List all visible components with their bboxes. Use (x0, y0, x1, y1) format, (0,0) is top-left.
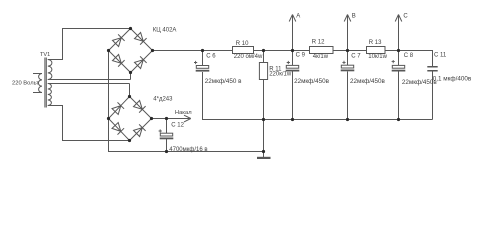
svg-text:220к/1w: 220к/1w (269, 72, 292, 78)
svg-text:4700мкф/16 в: 4700мкф/16 в (169, 147, 207, 153)
svg-text:22мкф/450 в: 22мкф/450 в (205, 78, 242, 85)
svg-text:0,1 мкф/400в: 0,1 мкф/400в (433, 76, 472, 83)
svg-text:TV1: TV1 (40, 52, 50, 58)
svg-text:R 12: R 12 (312, 39, 325, 45)
svg-text:220 ом/4w: 220 ом/4w (234, 54, 263, 60)
svg-text:C 8: C 8 (404, 53, 414, 59)
svg-text:C 9: C 9 (296, 52, 306, 58)
svg-text:4*д243: 4*д243 (153, 97, 173, 103)
svg-text:R 10: R 10 (236, 41, 249, 47)
svg-text:22мкф/450в: 22мкф/450в (350, 78, 386, 85)
svg-text:C 11: C 11 (434, 53, 447, 59)
svg-text:C 12: C 12 (171, 123, 184, 129)
svg-text:4к/1w: 4к/1w (313, 54, 329, 60)
svg-text:10к/1w: 10к/1w (368, 54, 387, 60)
svg-text:R 13: R 13 (369, 40, 382, 46)
svg-text:C 7: C 7 (351, 54, 361, 60)
svg-text:22мкф/450в: 22мкф/450в (294, 78, 330, 85)
svg-text:220 Вольт: 220 Вольт (12, 80, 39, 86)
svg-text:Накал: Накал (175, 110, 192, 116)
svg-text:B: B (352, 14, 356, 20)
svg-text:C 6: C 6 (206, 54, 216, 60)
svg-text:C: C (403, 14, 408, 20)
svg-text:A: A (296, 14, 300, 20)
svg-text:КЦ 402А: КЦ 402А (153, 27, 177, 33)
